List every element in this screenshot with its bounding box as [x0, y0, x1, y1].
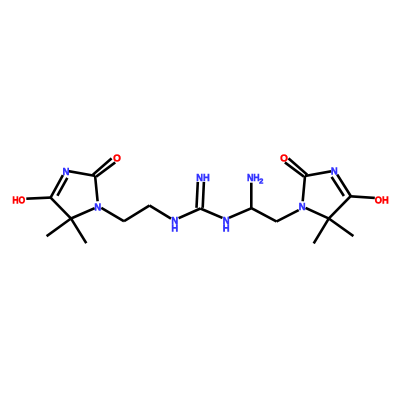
wire: double bond C4L=N3L outer: [51, 175, 63, 198]
wire: double bond C=NH line 2: [203, 182, 204, 208]
wire: methyl bond left 1: [47, 219, 71, 237]
svg-text:HO: HO: [12, 196, 25, 207]
wire: methyl bond right 2: [329, 219, 354, 237]
svg-text:N: N: [299, 202, 306, 213]
wire: bond CH2a-CH2b: [124, 206, 150, 222]
svg-text:N: N: [94, 202, 101, 213]
wire: double bond N3R=C4R outer: [337, 175, 351, 196]
svg-text:N: N: [63, 167, 70, 178]
wire: methyl bond right 1: [314, 219, 329, 244]
svg-text:O: O: [280, 154, 288, 165]
svg-text:NH: NH: [247, 173, 260, 184]
wire: bond NH left-central C: [179, 209, 201, 219]
wire: bond CH-NH2: [250, 183, 253, 209]
svg-text:O: O: [113, 153, 121, 164]
svg-text:OH: OH: [375, 196, 389, 207]
wire: bond N1L-C5L: [71, 208, 95, 218]
wire: bond C4L-HO: [26, 198, 50, 199]
wire: bond C5R-N1R: [306, 208, 329, 219]
wire: double bond C=NH line 1: [197, 182, 198, 208]
wire: bond N1R-C2R: [303, 176, 305, 201]
svg-text:NH: NH: [196, 173, 210, 184]
wire: double bond C2L=O left inner: [96, 162, 115, 176]
svg-text:H: H: [171, 224, 178, 235]
wire: bond C4R-OH: [351, 196, 375, 198]
svg-text:H: H: [223, 223, 230, 234]
wire: bond C5L-C4L: [51, 198, 71, 219]
wire: bond CH2b-NH left: [150, 206, 172, 219]
svg-text:2: 2: [259, 178, 263, 185]
wire: methyl bond left 2: [71, 219, 86, 244]
wire: double bond C4L=N3L inner: [57, 178, 67, 196]
wire: double bond C2R=O right inner: [285, 162, 304, 176]
wire: double bond C2R=O right outer: [289, 158, 308, 174]
wire: double bond N3R=C4R inner: [332, 177, 344, 196]
wire: bond CH2c-N1R: [277, 210, 299, 221]
svg-text:N: N: [331, 167, 338, 178]
wire: bond central C-NH right: [200, 209, 222, 218]
wire: bond C2R-N3R: [305, 171, 331, 176]
wire: double bond C2L=O left outer: [93, 158, 112, 174]
wire: bond N1L-CH2a: [101, 208, 124, 221]
wire: bond C4R-C5R: [329, 196, 351, 218]
wire: bond CH-CH2c: [252, 208, 277, 221]
wire: bond NH right-CH: [229, 208, 252, 218]
wire: bond C2L-N1L: [95, 176, 98, 201]
wire: bond N3L-C2L: [69, 171, 95, 176]
